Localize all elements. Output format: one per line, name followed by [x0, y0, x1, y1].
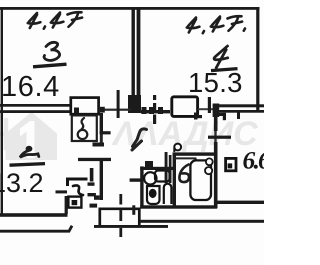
handwritten 3 room3 [44, 42, 60, 60]
kitchen vent dot [228, 163, 233, 168]
heater column [164, 184, 172, 204]
room1 wall stub up [65, 196, 68, 214]
corridor door leaf line lower [78, 158, 111, 161]
handwritten 4.47 room3 [28, 12, 82, 29]
closet right dashes [88, 182, 95, 185]
corridor door tick upper [100, 131, 111, 134]
underline room3 [33, 64, 67, 67]
junction hook right [217, 113, 226, 116]
wall segment right of junction [141, 110, 170, 113]
outer bottom long line [140, 220, 264, 223]
door tick right [208, 97, 211, 113]
junction blob below middle wall [128, 95, 141, 113]
kitchen vent box [226, 158, 236, 170]
handwritten 4.47 room4 [187, 16, 245, 33]
toilet bowl dot [149, 189, 156, 197]
toilet bowl [147, 186, 160, 204]
bathroom door hook [174, 144, 181, 152]
mark inside box1 [74, 108, 79, 114]
svg-text:13.2: 13.2 [0, 168, 44, 198]
WC top wall [140, 167, 173, 170]
door line right of box1 [99, 109, 131, 111]
door tick [117, 90, 120, 118]
handwritten 6 bathroom [179, 165, 189, 183]
kitchen wall junction blob [213, 104, 220, 118]
shaft under box1 [72, 115, 97, 141]
WC top bump [145, 161, 153, 168]
junction tick below box2 corner [194, 113, 198, 120]
underline room4 [211, 69, 238, 71]
lumps on that wall [142, 107, 147, 114]
shaft circle [78, 130, 88, 139]
shaft scribble [81, 118, 84, 130]
closet vent dot [72, 200, 78, 205]
door jamb lump [100, 107, 105, 113]
top wall [0, 7, 260, 10]
bathroom top wall [173, 152, 215, 155]
heater pipe [165, 152, 168, 183]
WC door tick [130, 178, 141, 181]
right wall [256, 7, 259, 112]
door leaf line [175, 158, 198, 163]
closet squiggle [73, 185, 83, 195]
toilet cistern circle [144, 172, 156, 184]
room1 bottom wall [0, 213, 68, 217]
right double wall upper line [219, 104, 264, 107]
handwritten 4 room4 [214, 46, 228, 68]
svg-text:15.3: 15.3 [188, 67, 243, 98]
balcony/terrace bottom line [94, 225, 168, 228]
pier box2 [172, 97, 198, 117]
corridor wall vertical [100, 113, 103, 134]
balcony axis dash-dot [119, 194, 122, 205]
tick below right wall [237, 113, 240, 120]
left double wall lower line [0, 110, 70, 113]
watermark letter left edge [0, 118, 6, 150]
WC left wall [140, 166, 143, 208]
corridor wall foot [94, 195, 100, 199]
underline room1 [10, 164, 46, 166]
faucet circles [206, 158, 213, 165]
toilet side box [155, 171, 170, 182]
left double wall upper line [0, 104, 70, 107]
balcony box [100, 209, 140, 227]
thin door line right of box2 [198, 108, 214, 110]
kitchen bottom wall [217, 201, 264, 204]
left wall [1, 7, 3, 216]
kitchen door tick [208, 136, 231, 139]
lower-left outer line [0, 226, 72, 232]
closet right bar [90, 168, 94, 182]
wall stub left of bathroom bottom [132, 205, 135, 215]
corridor door tick left [93, 143, 105, 147]
svg-text:16.4: 16.4 [1, 71, 60, 103]
corridor label squiggle [132, 129, 147, 150]
pier box1 [71, 98, 99, 115]
closet vent box [68, 197, 81, 208]
dash-dot axis at door [153, 95, 156, 100]
closet dash [56, 190, 68, 193]
kitchen wall vertical [214, 117, 218, 131]
bathroom left wall [173, 152, 176, 208]
right double wall lower line [219, 110, 264, 113]
watermark house logo [6, 112, 58, 160]
svg-text:6.6: 6.6 [243, 146, 265, 175]
wall between room3 and room4 (double) [132, 7, 135, 95]
watermark text [111, 115, 258, 153]
handwritten 1 room1 [20, 146, 39, 158]
bathroom bottom wall [140, 205, 217, 208]
closet L-bar [68, 179, 88, 186]
bathtub [190, 160, 211, 200]
